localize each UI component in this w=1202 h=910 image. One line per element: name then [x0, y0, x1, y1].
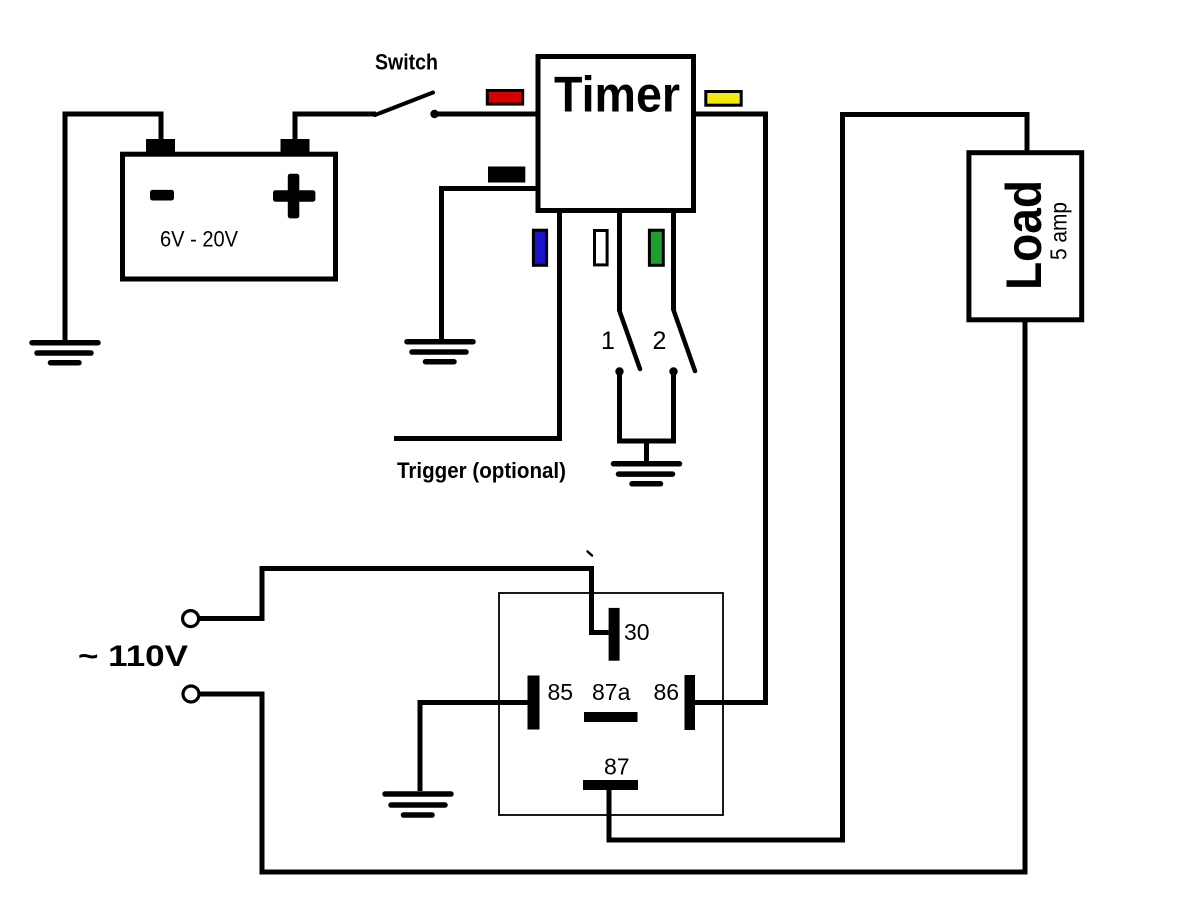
- svg-text:Load: Load: [996, 180, 1052, 290]
- relay pin 87a: [584, 712, 638, 722]
- svg-text:5 amp: 5 amp: [1046, 202, 1072, 260]
- indicator tab black: [488, 167, 525, 183]
- relay pin 85: [528, 676, 540, 730]
- switch SW1: [375, 50, 439, 119]
- battery B1 6V - 20V: [123, 139, 336, 279]
- stray tick mark: [588, 552, 593, 556]
- wire battery plus to switch: [295, 114, 376, 141]
- wire AC hot to relay pin 30: [199, 569, 609, 633]
- wire timer black lead to ground: [442, 189, 540, 342]
- svg-text:1: 1: [601, 327, 615, 355]
- wire relay pin 85 to ground: [420, 703, 528, 792]
- relay pin 86: [685, 675, 696, 730]
- relay K1: [499, 593, 723, 815]
- load L1: [969, 153, 1082, 320]
- svg-text:Trigger (optional): Trigger (optional): [397, 458, 566, 483]
- timer U1: [538, 57, 694, 211]
- relay pin 87: [583, 780, 638, 790]
- wire relay pin 87 to load (top): [609, 115, 1027, 841]
- wire switch to timer: [434, 112, 539, 117]
- ground (timer black lead): [407, 342, 473, 362]
- indicator tab green: [649, 230, 663, 265]
- svg-text:6V - 20V: 6V - 20V: [160, 226, 238, 251]
- svg-text:Switch: Switch: [375, 50, 438, 75]
- svg-text:~ 110V: ~ 110V: [78, 640, 188, 673]
- svg-text:2: 2: [653, 327, 667, 355]
- timer output contact 1: [601, 211, 640, 376]
- svg-text:30: 30: [624, 619, 650, 645]
- terminal circle AC hot: [183, 611, 199, 627]
- terminal circle AC neutral: [183, 686, 199, 702]
- svg-text:Timer: Timer: [554, 67, 680, 123]
- wire trigger (blue lead): [394, 211, 560, 439]
- wire timer output (yellow) to relay pin 86: [694, 114, 766, 703]
- svg-text:87: 87: [604, 754, 630, 780]
- wire load bottom to AC neutral: [199, 322, 1025, 872]
- ground (battery negative): [32, 343, 98, 363]
- timer output contact 2: [653, 211, 695, 376]
- relay pin 30: [609, 608, 620, 661]
- wire battery minus to ground: [65, 114, 161, 341]
- wire contacts 1 and 2 join to ground: [620, 374, 674, 463]
- ground (pin 85): [385, 794, 451, 815]
- ground (contacts): [614, 464, 680, 484]
- indicator tab blue: [533, 230, 546, 265]
- svg-text:87a: 87a: [592, 679, 631, 705]
- indicator tab white: [595, 231, 608, 265]
- indicator tab yellow: [706, 92, 741, 106]
- svg-text:86: 86: [654, 679, 680, 705]
- svg-text:85: 85: [548, 679, 574, 705]
- indicator tab red: [487, 91, 522, 105]
